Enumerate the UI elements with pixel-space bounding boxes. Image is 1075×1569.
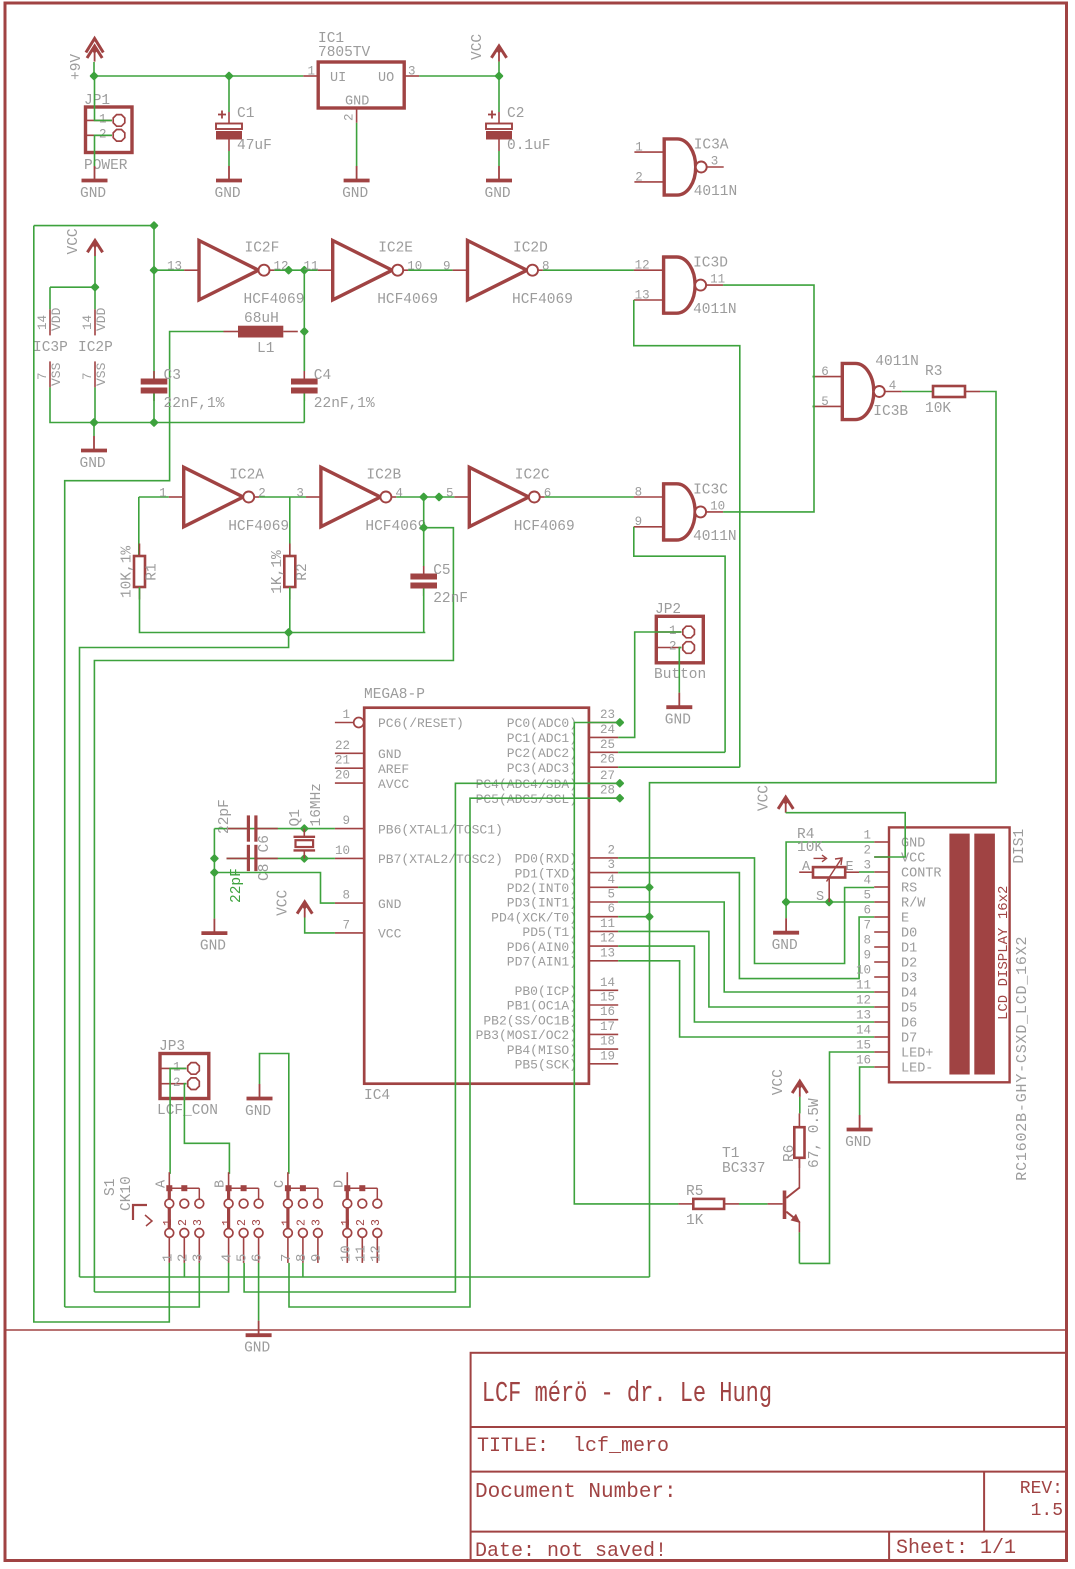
VCC arrow top bbox=[470, 34, 507, 62]
wire JP2-1 to PC1 bbox=[618, 632, 681, 737]
wire IC2C out to IC3C pin 8 bbox=[545, 496, 634, 498]
svg-text:12: 12 bbox=[368, 1245, 384, 1262]
junction ground rail at C3 bbox=[149, 418, 158, 427]
svg-text:HCF4069: HCF4069 bbox=[365, 519, 426, 535]
wire IC1 output to VCC bbox=[419, 75, 499, 77]
svg-text:VCC: VCC bbox=[470, 34, 486, 60]
junction crystal top bbox=[300, 824, 309, 833]
svg-text:47uF: 47uF bbox=[237, 138, 272, 154]
svg-text:IC2C: IC2C bbox=[515, 468, 550, 484]
resistor R6 67 0.5W bbox=[782, 1098, 823, 1168]
svg-text:5: 5 bbox=[446, 486, 454, 500]
transistor T1 BC337 bbox=[722, 1146, 800, 1232]
svg-text:VCC: VCC bbox=[757, 785, 773, 811]
svg-text:PC6(/RESET): PC6(/RESET) bbox=[378, 716, 464, 731]
pin 18 PB4(MISO) of IC4 bbox=[507, 1035, 618, 1058]
wire PD6 to LCD D6 bbox=[618, 946, 874, 1022]
wire JP3-1 to switch pole A bbox=[170, 1068, 186, 1174]
svg-text:4011N: 4011N bbox=[693, 529, 737, 545]
svg-text:GND: GND bbox=[342, 186, 368, 202]
junction +9V at JP1 riser bbox=[89, 71, 98, 80]
pin 19 PB5(SCK) of IC4 bbox=[515, 1049, 619, 1072]
svg-text:E: E bbox=[901, 912, 909, 927]
ground below crystal caps bbox=[200, 919, 228, 955]
wire PC0 net to R5 and T1 base bbox=[574, 723, 678, 1204]
title block bbox=[471, 1353, 1067, 1561]
op-amp IC2B inverter HCF4069 bbox=[296, 467, 426, 535]
pin 15 PB1(OC1A) of IC4 bbox=[507, 991, 618, 1014]
svg-text:2: 2 bbox=[863, 844, 871, 858]
svg-text:1: 1 bbox=[340, 1219, 353, 1226]
svg-text:PD5(T1): PD5(T1) bbox=[522, 925, 577, 940]
pin 10 D3 of DIS1 bbox=[856, 964, 917, 987]
svg-text:2: 2 bbox=[258, 486, 266, 500]
svg-text:2: 2 bbox=[607, 843, 615, 857]
wire IC2A input node bbox=[139, 496, 169, 498]
resistor R2 1K 1% bbox=[270, 544, 311, 600]
svg-text:11: 11 bbox=[710, 273, 725, 287]
pin 8 D1 of DIS1 bbox=[863, 934, 917, 957]
svg-text:1: 1 bbox=[307, 65, 315, 79]
svg-text:JP1: JP1 bbox=[84, 93, 110, 109]
pin 3 PD1(TXD) of IC4 bbox=[515, 858, 619, 881]
svg-text:4: 4 bbox=[395, 486, 403, 500]
svg-text:2: 2 bbox=[343, 113, 357, 121]
wire riser to pin 5 of IC3B bbox=[813, 405, 815, 407]
pin 13 D6 of DIS1 bbox=[856, 1009, 917, 1032]
capacitor C4 22nF 1% bbox=[291, 368, 375, 412]
junction VDD rail bbox=[90, 283, 99, 292]
wire C4 top bbox=[303, 332, 305, 372]
pin 14 D7 of DIS1 bbox=[856, 1024, 917, 1047]
svg-text:12: 12 bbox=[635, 259, 650, 273]
gate IC3C 4011N bbox=[634, 482, 737, 545]
svg-text:IC2E: IC2E bbox=[378, 241, 413, 257]
svg-text:UI: UI bbox=[330, 71, 346, 86]
svg-text:HCF4069: HCF4069 bbox=[514, 519, 575, 535]
svg-text:VSS: VSS bbox=[94, 362, 109, 386]
svg-text:LCF_CON: LCF_CON bbox=[157, 1103, 218, 1119]
junction +9V at C1 bbox=[224, 71, 233, 80]
svg-text:R3: R3 bbox=[925, 364, 942, 380]
power pin IC3P VSS pin 7 bbox=[36, 361, 64, 387]
svg-text:11: 11 bbox=[353, 1245, 369, 1262]
svg-text:22nF,1%: 22nF,1% bbox=[164, 396, 225, 412]
svg-text:C3: C3 bbox=[164, 368, 181, 384]
wire PD1 to LCD E bbox=[618, 873, 874, 979]
switch section S1-D bbox=[332, 1172, 384, 1263]
pin 1 PC6(/RESET) of IC4 bbox=[335, 708, 464, 731]
svg-text:GND: GND bbox=[80, 186, 106, 202]
pin 6 PD4(XCK/T0) of IC4 bbox=[491, 902, 618, 925]
svg-text:22nF,1%: 22nF,1% bbox=[314, 396, 375, 412]
svg-text:8: 8 bbox=[635, 485, 643, 499]
svg-text:PD3(INT1): PD3(INT1) bbox=[507, 896, 577, 911]
svg-text:28: 28 bbox=[600, 784, 615, 798]
wire riser to pin 6 of IC3B bbox=[813, 376, 815, 378]
wire IC3D out to IC3B in 6 bbox=[723, 285, 814, 512]
svg-text:1: 1 bbox=[669, 624, 677, 638]
svg-text:5: 5 bbox=[821, 395, 829, 409]
svg-text:RC1602B-GHY-CSXD_LCD_16X2: RC1602B-GHY-CSXD_LCD_16X2 bbox=[1014, 936, 1031, 1181]
pin 3 CONTR of DIS1 bbox=[863, 859, 941, 882]
wire R1 bottom bbox=[140, 587, 426, 633]
switch S1 CK10 actuator bbox=[103, 1176, 152, 1226]
svg-text:CONTR: CONTR bbox=[901, 867, 942, 882]
junction VCC at C2 bbox=[494, 71, 503, 80]
svg-text:10: 10 bbox=[335, 844, 350, 858]
svg-text:IC2A: IC2A bbox=[229, 468, 264, 484]
junction L1 right bbox=[300, 327, 309, 336]
ground at R4 bbox=[772, 918, 800, 954]
pin pad JP2-2 bbox=[683, 642, 695, 654]
svg-text:5: 5 bbox=[235, 1254, 251, 1262]
svg-text:E: E bbox=[846, 860, 854, 875]
wire JP1-2 to ground bbox=[95, 135, 113, 166]
display DIS1 LCD 16x2 bbox=[889, 827, 1031, 1180]
svg-text:10K: 10K bbox=[797, 840, 823, 856]
wire VCC arrow to rail bbox=[498, 62, 500, 76]
connector JP1 POWER bbox=[84, 93, 132, 174]
wire IC3D pin13 net to PC3 bbox=[634, 300, 740, 767]
junction ground rail at GND bbox=[89, 418, 98, 427]
svg-text:GND: GND bbox=[485, 186, 511, 202]
ground below C2 bbox=[485, 166, 513, 202]
svg-text:19: 19 bbox=[600, 1049, 615, 1063]
pin 11 PD5(T1) of IC4 bbox=[522, 917, 618, 940]
wire PD7 to LCD D7 bbox=[618, 961, 874, 1037]
svg-text:4: 4 bbox=[889, 379, 897, 393]
svg-text:2: 2 bbox=[236, 1219, 249, 1226]
svg-text:PC2(ADC2): PC2(ADC2) bbox=[507, 746, 577, 761]
svg-text:PC5(ADC5/SCL): PC5(ADC5/SCL) bbox=[476, 792, 577, 807]
svg-text:15: 15 bbox=[600, 991, 615, 1005]
svg-text:L1: L1 bbox=[257, 341, 274, 357]
svg-text:5: 5 bbox=[607, 888, 615, 902]
ground below C1 bbox=[215, 166, 243, 202]
switch section S1-A bbox=[154, 1172, 206, 1263]
connector JP3 LCF_CON bbox=[157, 1039, 218, 1119]
svg-text:11: 11 bbox=[304, 260, 319, 274]
svg-text:4011N: 4011N bbox=[875, 354, 919, 370]
svg-text:MEGA8-P: MEGA8-P bbox=[364, 687, 425, 703]
pin pad JP1-1 bbox=[113, 115, 125, 127]
wire IC2B out to IC2C in bbox=[396, 496, 454, 498]
wire ground rail drop bbox=[93, 423, 95, 437]
ground below switch B3 bbox=[244, 1321, 272, 1357]
crystal Q1 16MHz bbox=[288, 783, 325, 858]
svg-text:PB5(SCK): PB5(SCK) bbox=[515, 1058, 577, 1073]
pin pad JP1-2 bbox=[113, 130, 125, 142]
svg-text:1: 1 bbox=[221, 1219, 234, 1226]
power pin IC3P VDD pin 14 bbox=[36, 307, 64, 335]
svg-text:1: 1 bbox=[280, 1219, 293, 1226]
svg-text:2: 2 bbox=[355, 1219, 368, 1226]
wire PD4 stub to bus bbox=[618, 916, 649, 918]
svg-text:D0: D0 bbox=[901, 927, 917, 942]
svg-text:8: 8 bbox=[342, 889, 350, 903]
svg-text:10: 10 bbox=[338, 1245, 354, 1262]
svg-text:C4: C4 bbox=[314, 368, 331, 384]
connector JP2 Button bbox=[654, 602, 706, 683]
pin 12 D5 of DIS1 bbox=[856, 994, 917, 1017]
pin 28 PC5(ADC5/SCL) of IC4 bbox=[476, 784, 619, 807]
wire IC1 GND pin to ground bbox=[356, 123, 358, 166]
svg-text:HCF4069: HCF4069 bbox=[377, 292, 438, 308]
svg-text:8: 8 bbox=[863, 934, 871, 948]
VCC arrow at R6 bbox=[771, 1069, 808, 1097]
svg-text:10: 10 bbox=[710, 499, 725, 513]
svg-text:PC0(ADC0): PC0(ADC0) bbox=[507, 716, 577, 731]
wire VCC to LCD pin2 bbox=[786, 813, 906, 857]
svg-text:1: 1 bbox=[342, 708, 350, 722]
regulator IC1 7805TV bbox=[303, 31, 419, 123]
svg-text:C1: C1 bbox=[237, 106, 254, 122]
ground at switch pole C bbox=[245, 1084, 273, 1120]
pin 14 PB0(ICP) of IC4 bbox=[515, 976, 619, 999]
svg-text:IC2F: IC2F bbox=[245, 241, 280, 257]
svg-text:3: 3 bbox=[251, 1219, 264, 1226]
microcontroller IC4 MEGA8-P bbox=[364, 687, 589, 1104]
wire LCD GND pin1 to ground bbox=[786, 842, 874, 918]
power pin IC2P VDD pin 14 bbox=[81, 307, 109, 335]
pin 2 VCC of DIS1 bbox=[863, 844, 925, 867]
ground below JP2 bbox=[665, 693, 693, 729]
svg-text:3: 3 bbox=[190, 1254, 206, 1262]
svg-text:2: 2 bbox=[295, 1219, 308, 1226]
svg-text:C6: C6 bbox=[257, 835, 273, 852]
wire switch A1 to C3-top node bbox=[34, 226, 170, 1322]
pin 20 AVCC of IC4 bbox=[335, 769, 410, 792]
svg-text:C2: C2 bbox=[507, 106, 524, 122]
svg-text:7: 7 bbox=[863, 919, 871, 933]
wire PD3 to LCD D4 bbox=[618, 902, 874, 992]
wire PD0 to LCD RS bbox=[618, 858, 874, 964]
wire XTAL1 row bbox=[227, 828, 335, 830]
VCC arrow mid-left bbox=[66, 228, 103, 256]
pin 12 PD6(AIN0) of IC4 bbox=[507, 932, 618, 955]
svg-text:13: 13 bbox=[600, 946, 615, 960]
svg-text:R1: R1 bbox=[145, 563, 161, 580]
svg-text:1K: 1K bbox=[686, 1213, 704, 1229]
svg-text:LCF mérö - dr. Le Hung: LCF mérö - dr. Le Hung bbox=[482, 1377, 772, 1410]
wire measurement bus horizontal bbox=[80, 1276, 650, 1278]
pin pad JP2-1 bbox=[683, 626, 695, 638]
wire IC2E out to IC2D in bbox=[408, 269, 453, 271]
wire C4 bottom to ground rail bbox=[303, 394, 305, 423]
wire MCU pin8 GND to rail bbox=[214, 873, 335, 904]
svg-text:3: 3 bbox=[863, 859, 871, 873]
svg-text:3: 3 bbox=[192, 1219, 205, 1226]
wire LED+ to T1 emitter bbox=[799, 1052, 874, 1263]
wire switch A2 to measurement bus bbox=[183, 1263, 185, 1277]
svg-text:6: 6 bbox=[821, 365, 829, 379]
pin 10 PB7(XTAL2/TOSC2) of IC4 bbox=[335, 844, 503, 867]
wire XTAL2 row bbox=[227, 857, 335, 859]
svg-text:8: 8 bbox=[294, 1254, 310, 1262]
svg-text:3: 3 bbox=[370, 1219, 383, 1226]
svg-text:HCF4069: HCF4069 bbox=[244, 292, 305, 308]
wire JP2-2 to ground bbox=[679, 648, 681, 693]
pin 4 RS of DIS1 bbox=[863, 874, 917, 897]
junction R4 ground node bbox=[781, 897, 790, 906]
svg-text:POWER: POWER bbox=[84, 158, 128, 174]
wire C3-top node vertical bbox=[153, 226, 155, 271]
wire switch B1 to IC2B output node bbox=[94, 1263, 228, 1292]
wire R1 top bbox=[138, 497, 140, 556]
svg-text:R6: R6 bbox=[782, 1145, 798, 1162]
wire switch C2 to measurement bus bbox=[302, 1263, 304, 1277]
wire R4 E terminal to CONTR bbox=[859, 871, 874, 873]
pin 9 PB6(XTAL1/TOSC1) of IC4 bbox=[335, 814, 503, 837]
svg-text:15: 15 bbox=[856, 1039, 871, 1053]
pin 9 D2 of DIS1 bbox=[863, 949, 917, 972]
pin 1 GND of DIS1 bbox=[863, 829, 925, 852]
svg-text:IC4: IC4 bbox=[364, 1088, 390, 1104]
pin 13 PD7(AIN1) of IC4 bbox=[507, 946, 618, 969]
svg-text:D1: D1 bbox=[901, 942, 917, 957]
svg-text:PB0(ICP): PB0(ICP) bbox=[515, 984, 577, 999]
op-amp IC2A inverter HCF4069 bbox=[159, 467, 289, 535]
svg-text:AVCC: AVCC bbox=[378, 777, 409, 792]
+9V supply arrow bbox=[69, 39, 103, 81]
svg-text:7: 7 bbox=[279, 1254, 295, 1262]
wire C5 tap from IC2B output bbox=[423, 497, 425, 567]
svg-text:1: 1 bbox=[159, 486, 167, 500]
svg-text:PB7(XTAL2/TOSC2): PB7(XTAL2/TOSC2) bbox=[378, 852, 503, 867]
svg-text:PB3(MOSI/OC2): PB3(MOSI/OC2) bbox=[476, 1028, 577, 1043]
wire JP3-2 to switch pole B bbox=[184, 1084, 229, 1174]
svg-text:GND: GND bbox=[845, 1135, 871, 1151]
wire VCC to R6 bbox=[799, 1097, 801, 1114]
wire switch B3 to ground bbox=[258, 1263, 260, 1321]
svg-text:1: 1 bbox=[162, 1219, 175, 1226]
wire IC2F input bbox=[154, 269, 184, 271]
svg-text:IC3B: IC3B bbox=[873, 404, 908, 420]
svg-text:Q1: Q1 bbox=[288, 809, 304, 826]
junction C8 left bbox=[210, 854, 219, 863]
op-amp IC2F inverter HCF4069 bbox=[167, 241, 304, 309]
svg-text:HCF4069: HCF4069 bbox=[512, 292, 573, 308]
wire R/W and wiper to ground bbox=[786, 901, 874, 903]
svg-text:9: 9 bbox=[635, 515, 643, 529]
svg-text:PB6(XTAL1/TOSC1): PB6(XTAL1/TOSC1) bbox=[378, 822, 503, 837]
svg-text:2: 2 bbox=[173, 1076, 181, 1090]
svg-text:S1: S1 bbox=[103, 1179, 119, 1196]
junction at oscillator node riser bbox=[149, 221, 158, 230]
pin 4 PD2(INT0) of IC4 bbox=[507, 873, 618, 896]
svg-text:REV:: REV: bbox=[1020, 1479, 1063, 1499]
svg-text:6: 6 bbox=[544, 486, 552, 500]
wire IC3C pin9 net to PC2 bbox=[634, 527, 725, 753]
svg-text:12: 12 bbox=[856, 994, 871, 1008]
svg-text:PB4(MISO): PB4(MISO) bbox=[507, 1043, 577, 1058]
svg-text:GND: GND bbox=[378, 747, 402, 762]
svg-text:12: 12 bbox=[600, 932, 615, 946]
svg-text:20: 20 bbox=[335, 769, 350, 783]
wire IC2F out to IC2E in bbox=[274, 269, 317, 271]
pin 11 D4 of DIS1 bbox=[856, 979, 917, 1002]
pin 7 VCC of IC4 bbox=[335, 918, 402, 941]
pin 23 PC0(ADC0) of IC4 bbox=[507, 708, 618, 731]
svg-text:IC2B: IC2B bbox=[366, 468, 401, 484]
svg-text:3: 3 bbox=[310, 1219, 323, 1226]
svg-text:JP3: JP3 bbox=[159, 1039, 185, 1055]
svg-text:14: 14 bbox=[81, 315, 95, 330]
svg-text:4: 4 bbox=[607, 873, 615, 887]
svg-text:16MHz: 16MHz bbox=[309, 783, 325, 827]
svg-text:3: 3 bbox=[607, 858, 615, 872]
resistor R5 1K bbox=[678, 1184, 739, 1229]
svg-text:9: 9 bbox=[443, 260, 451, 274]
svg-text:PD0(RXD): PD0(RXD) bbox=[515, 852, 577, 867]
capacitor C3 22nF 1% bbox=[141, 368, 225, 412]
svg-text:6: 6 bbox=[250, 1254, 266, 1262]
svg-text:D3: D3 bbox=[901, 972, 917, 987]
svg-text:Document Number:: Document Number: bbox=[475, 1481, 677, 1504]
svg-text:GND: GND bbox=[665, 713, 691, 729]
svg-text:IC2P: IC2P bbox=[78, 340, 113, 356]
svg-text:1: 1 bbox=[635, 141, 643, 155]
svg-text:LCD DISPLAY 16x2: LCD DISPLAY 16x2 bbox=[996, 886, 1012, 1020]
pin pad JP3-2 bbox=[188, 1078, 200, 1090]
pin 22 GND of IC4 bbox=[335, 739, 402, 762]
svg-text:25: 25 bbox=[600, 738, 615, 752]
pin 5 PD3(INT1) of IC4 bbox=[507, 888, 618, 911]
wire C2 to VCC rail bbox=[498, 76, 500, 112]
svg-text:4011N: 4011N bbox=[694, 184, 738, 200]
svg-text:1: 1 bbox=[863, 829, 871, 843]
svg-text:16: 16 bbox=[856, 1054, 871, 1068]
svg-text:R5: R5 bbox=[686, 1184, 703, 1200]
wire LED- to ground bbox=[860, 1067, 875, 1115]
svg-text:7: 7 bbox=[81, 372, 95, 380]
svg-text:16: 16 bbox=[600, 1005, 615, 1019]
capacitor C2 0.1uF bbox=[486, 106, 551, 154]
wire PD2 stub to bus bbox=[618, 886, 649, 888]
svg-text:1K,1%: 1K,1% bbox=[270, 550, 286, 594]
gate IC3D 4011N bbox=[634, 255, 737, 318]
svg-text:JP2: JP2 bbox=[655, 602, 681, 618]
junction PC4 pin bbox=[615, 779, 624, 788]
svg-text:8: 8 bbox=[542, 260, 550, 274]
pin 26 PC3(ADC3) of IC4 bbox=[507, 753, 618, 776]
svg-text:PD6(AIN0): PD6(AIN0) bbox=[507, 940, 577, 955]
junction IC2F output b bbox=[300, 266, 309, 275]
wire R5 to T1 base bbox=[739, 1203, 768, 1205]
op-amp IC2C inverter HCF4069 bbox=[454, 467, 574, 535]
pin 6 E of DIS1 bbox=[863, 904, 909, 927]
wire IC3B output to R3 bbox=[902, 391, 933, 393]
svg-text:9: 9 bbox=[863, 949, 871, 963]
svg-text:TITLE: lcf_mero: TITLE: lcf_mero bbox=[477, 1435, 669, 1458]
svg-text:2: 2 bbox=[669, 640, 677, 654]
svg-text:6: 6 bbox=[863, 904, 871, 918]
junction C5 top bbox=[419, 523, 428, 532]
junction PD2 tap bbox=[645, 883, 654, 892]
svg-text:68uH: 68uH bbox=[244, 311, 279, 327]
svg-text:13: 13 bbox=[635, 288, 650, 302]
pin 15 LED+ of DIS1 bbox=[856, 1039, 933, 1062]
junction R2 bottom bbox=[284, 628, 293, 637]
svg-text:2: 2 bbox=[177, 1219, 190, 1226]
svg-text:0.1uF: 0.1uF bbox=[507, 138, 551, 154]
svg-text:Button: Button bbox=[654, 667, 706, 683]
svg-text:D7: D7 bbox=[901, 1032, 917, 1047]
svg-text:3: 3 bbox=[711, 155, 719, 169]
wire PC4 SDA net into box and to switch B2 bbox=[244, 783, 618, 1292]
power pin IC2P VSS pin 7 bbox=[81, 361, 109, 387]
